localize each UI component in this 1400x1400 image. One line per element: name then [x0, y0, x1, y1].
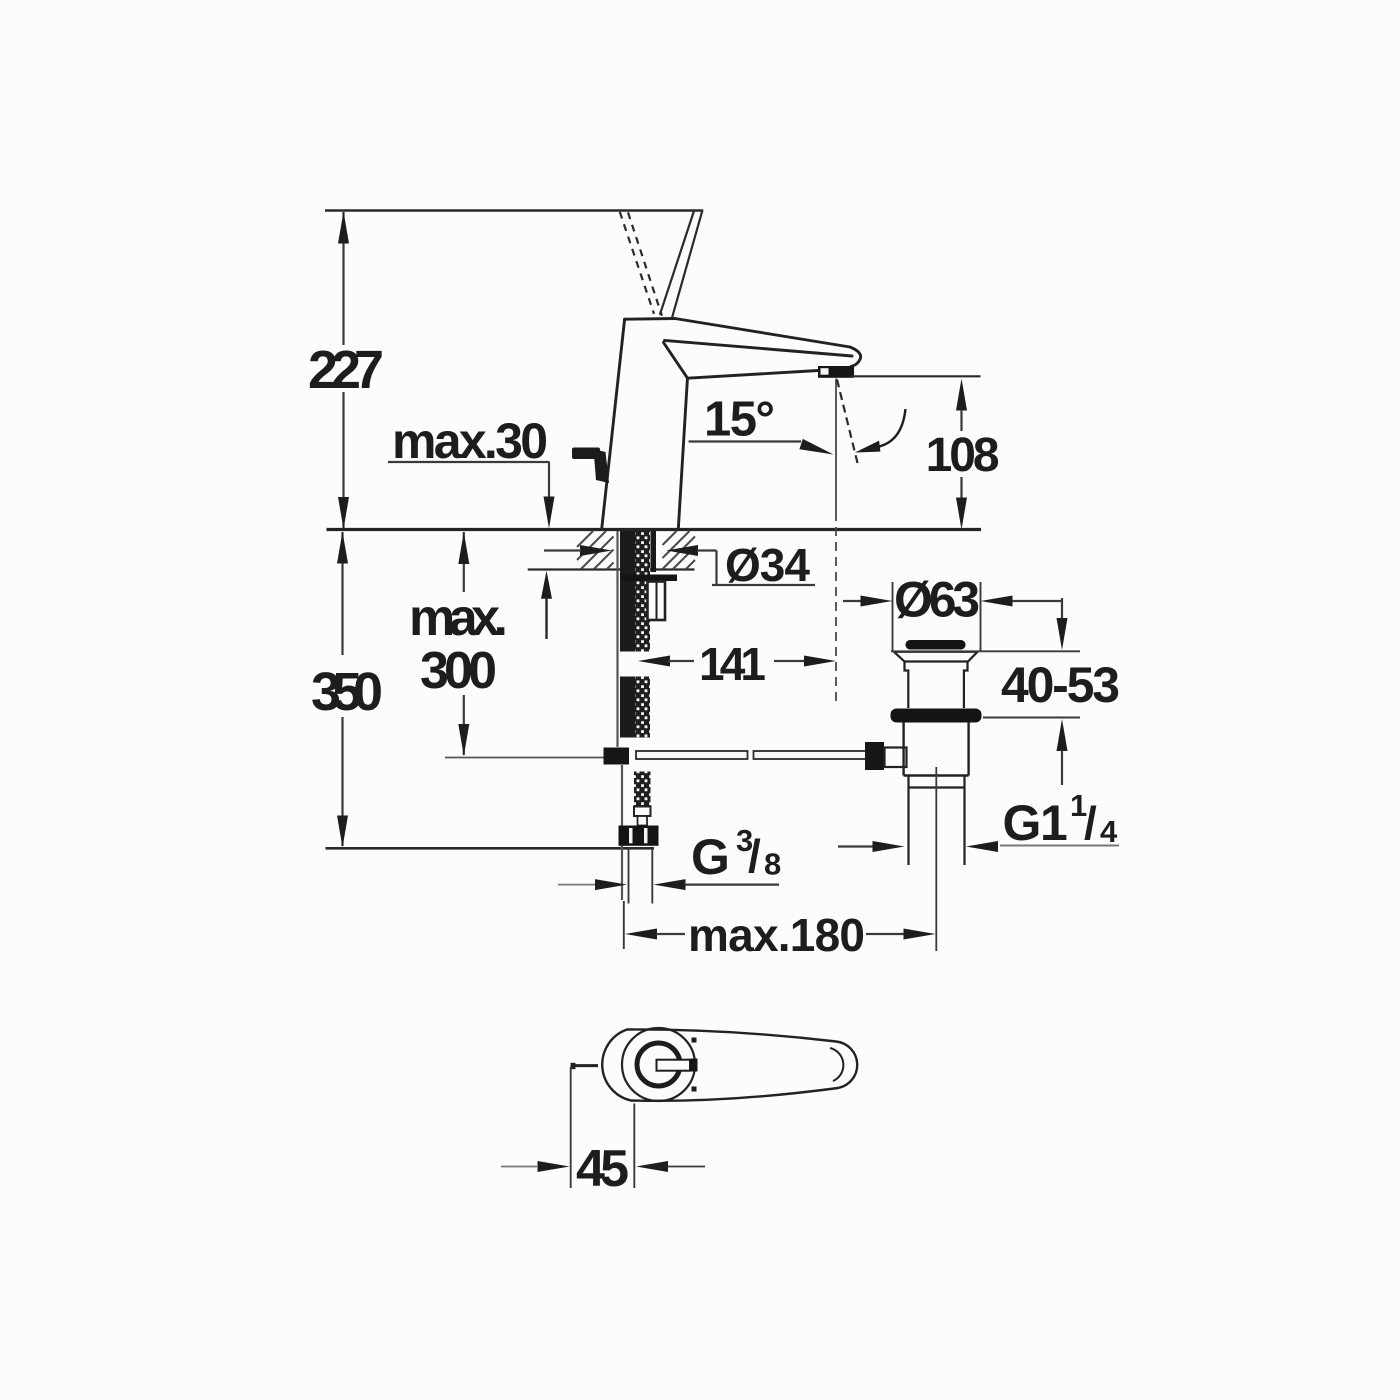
pull rod (vertical) — [618, 531, 623, 900]
svg-text:1: 1 — [1040, 795, 1068, 851]
rod end block at drain — [865, 742, 884, 770]
wire: bottom reference line (350 bottom) — [326, 847, 655, 850]
wire: max.300 bottom reference line — [445, 757, 604, 759]
counter cross-section hatching left — [577, 531, 614, 569]
svg-text:141: 141 — [699, 638, 766, 690]
aerator / outlet — [818, 366, 854, 378]
lever handle (alternate position, dashed) — [620, 212, 662, 316]
counter cross-section hatching right — [663, 531, 696, 569]
water stream tilted line (15 deg, dashed) — [837, 380, 859, 468]
arrow max.30 from below counter — [541, 571, 552, 639]
hose lower section — [634, 772, 651, 826]
wire: top reference line (227 top) — [325, 209, 703, 212]
hole right edge piece — [651, 531, 657, 572]
dimension 108 — [926, 379, 1000, 530]
wire: spout outlet reference line (108 top) — [851, 375, 981, 377]
svg-text:300: 300 — [420, 642, 497, 700]
svg-text:108: 108 — [926, 429, 1000, 482]
svg-text:/: / — [748, 830, 761, 882]
svg-text:40-53: 40-53 — [1001, 657, 1120, 713]
svg-text:Ø34: Ø34 — [725, 539, 810, 591]
dimension 227 vertical line — [308, 212, 384, 530]
svg-text:15°: 15° — [704, 393, 775, 447]
svg-text:G: G — [691, 829, 730, 885]
threaded mounting stud — [636, 531, 651, 738]
svg-text:/: / — [1084, 797, 1097, 849]
pop-up rod tee fitting — [604, 748, 630, 765]
svg-text:Ø63: Ø63 — [894, 572, 980, 628]
dimension 15 degrees — [689, 393, 834, 455]
label max.30 with leader — [388, 413, 555, 529]
svg-text:4: 4 — [1100, 814, 1118, 849]
handle center bar — [657, 1059, 698, 1072]
horizontal pop-up rod — [636, 751, 866, 759]
handle top view outline — [602, 1029, 857, 1100]
drain flange — [894, 652, 978, 662]
svg-text:45: 45 — [576, 1140, 629, 1198]
svg-text:8: 8 — [764, 847, 781, 882]
rod-to-drain connector — [885, 748, 907, 768]
dimension 45 — [501, 1067, 705, 1198]
drain plug disc — [906, 640, 966, 650]
dimension diameter 34 with leader — [544, 539, 815, 591]
handle inner ring — [637, 1043, 680, 1086]
drain gasket — [891, 709, 982, 723]
dimension G 3/8 — [558, 823, 781, 904]
wire: countertop bottom line — [528, 568, 695, 570]
hose hex nut (G 3/8) — [619, 826, 659, 846]
mounting bracket — [648, 582, 666, 621]
svg-text:max.180: max.180 — [688, 909, 865, 961]
dimension max.300 — [409, 532, 508, 756]
handle base outer circle — [622, 1028, 695, 1101]
lever handle (up position) — [660, 210, 703, 318]
drain centerline — [935, 767, 937, 951]
flexible hose column — [620, 531, 636, 738]
wire: 40-53 bottom reference line — [983, 717, 1080, 719]
svg-text:max.: max. — [409, 589, 508, 647]
drain tailpipe — [909, 776, 965, 866]
drain body — [904, 723, 969, 776]
dimension 141 — [638, 638, 836, 690]
handle stub — [571, 1063, 599, 1069]
dimension 350 vertical line — [311, 532, 383, 848]
dimension max.180 — [624, 901, 936, 961]
svg-text:G: G — [1003, 795, 1042, 851]
drain neck — [905, 662, 968, 709]
svg-text:227: 227 — [308, 340, 384, 400]
hidden line dots — [692, 1038, 697, 1092]
curved arrow at stream — [855, 409, 906, 453]
dimension 40-53 — [1001, 598, 1120, 785]
svg-text:350: 350 — [311, 662, 383, 722]
water stream centerline (vertical) — [835, 379, 837, 706]
dimension G1 1/4 — [838, 788, 1119, 852]
faucet body outline — [602, 319, 861, 530]
wire: deck / countertop line — [327, 528, 982, 531]
lever front tip (side view) — [572, 448, 609, 484]
mounting washer — [622, 575, 678, 582]
svg-text:max.30: max.30 — [392, 413, 548, 469]
wire: 40-53 top reference line — [891, 650, 1080, 652]
dimension diameter 63 — [843, 572, 1062, 652]
